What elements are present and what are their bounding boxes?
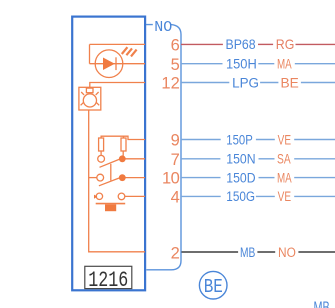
svg-text:VE: VE	[278, 189, 291, 205]
svg-text:150P: 150P	[226, 131, 252, 147]
svg-text:6: 6	[171, 37, 180, 55]
svg-text:NO: NO	[278, 244, 296, 260]
svg-text:MB: MB	[240, 244, 255, 260]
svg-text:SA: SA	[277, 151, 291, 167]
svg-text:0: 0	[171, 170, 180, 188]
svg-text:MA: MA	[277, 56, 292, 72]
svg-text:MB: MB	[314, 299, 330, 308]
svg-text:2: 2	[171, 75, 180, 93]
svg-text:9: 9	[171, 132, 180, 150]
svg-text:NO: NO	[154, 19, 172, 36]
svg-text:150D: 150D	[226, 170, 255, 186]
svg-text:150G: 150G	[226, 188, 255, 204]
svg-text:150N: 150N	[226, 151, 255, 167]
svg-text:5: 5	[171, 56, 180, 74]
svg-text:BE: BE	[281, 74, 299, 90]
svg-text:VE: VE	[278, 132, 291, 148]
svg-text:4: 4	[171, 189, 180, 207]
svg-text:1216: 1216	[88, 268, 128, 293]
svg-text:BP68: BP68	[226, 36, 256, 52]
svg-text:2: 2	[171, 245, 180, 263]
svg-text:RG: RG	[276, 36, 295, 52]
svg-text:1: 1	[161, 75, 170, 93]
svg-text:7: 7	[171, 151, 180, 169]
svg-text:LPG: LPG	[232, 75, 259, 90]
svg-text:150H: 150H	[226, 56, 257, 72]
svg-text:MA: MA	[277, 170, 292, 186]
svg-text:1: 1	[162, 170, 171, 188]
svg-text:BE: BE	[204, 276, 223, 298]
